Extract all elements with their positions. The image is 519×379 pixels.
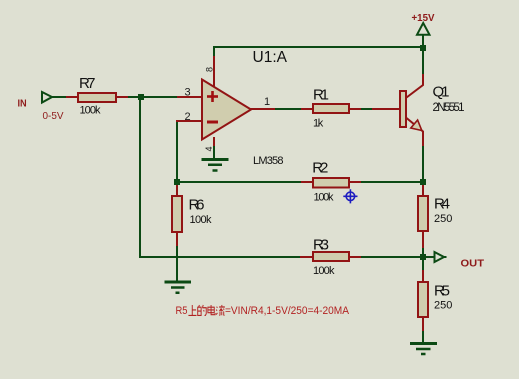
svg-text:R5: R5	[434, 283, 450, 300]
svg-text:R2: R2	[312, 159, 328, 176]
svg-text:100k: 100k	[190, 214, 213, 226]
svg-text:Q1: Q1	[433, 84, 450, 101]
svg-text:IN: IN	[18, 98, 27, 110]
svg-text:4: 4	[204, 146, 214, 151]
svg-text:R5: R5	[176, 305, 188, 317]
svg-text:2N5551: 2N5551	[433, 102, 465, 114]
svg-text:3: 3	[185, 87, 191, 99]
svg-text:U1:A: U1:A	[253, 49, 288, 66]
svg-text:250: 250	[434, 300, 452, 312]
svg-text:1: 1	[264, 96, 270, 108]
svg-text:OUT: OUT	[461, 258, 485, 270]
svg-text:100k: 100k	[80, 105, 102, 117]
svg-text:250: 250	[434, 213, 452, 225]
svg-text:0-5V: 0-5V	[43, 110, 64, 122]
svg-text:LM358: LM358	[253, 155, 284, 167]
svg-text:100k: 100k	[314, 192, 335, 204]
svg-text:R4: R4	[434, 196, 450, 213]
svg-text:=VIN/R4,1-5V/250=4-20MA: =VIN/R4,1-5V/250=4-20MA	[225, 305, 350, 317]
svg-text:2: 2	[185, 111, 191, 123]
svg-text:R6: R6	[189, 197, 205, 214]
svg-text:R3: R3	[313, 237, 329, 254]
svg-text:+15V: +15V	[412, 12, 435, 24]
svg-text:R7: R7	[79, 75, 96, 92]
svg-text:R1: R1	[313, 87, 329, 104]
svg-text:100k: 100k	[313, 265, 335, 277]
svg-text:8: 8	[205, 67, 215, 72]
svg-text:1k: 1k	[313, 118, 324, 130]
